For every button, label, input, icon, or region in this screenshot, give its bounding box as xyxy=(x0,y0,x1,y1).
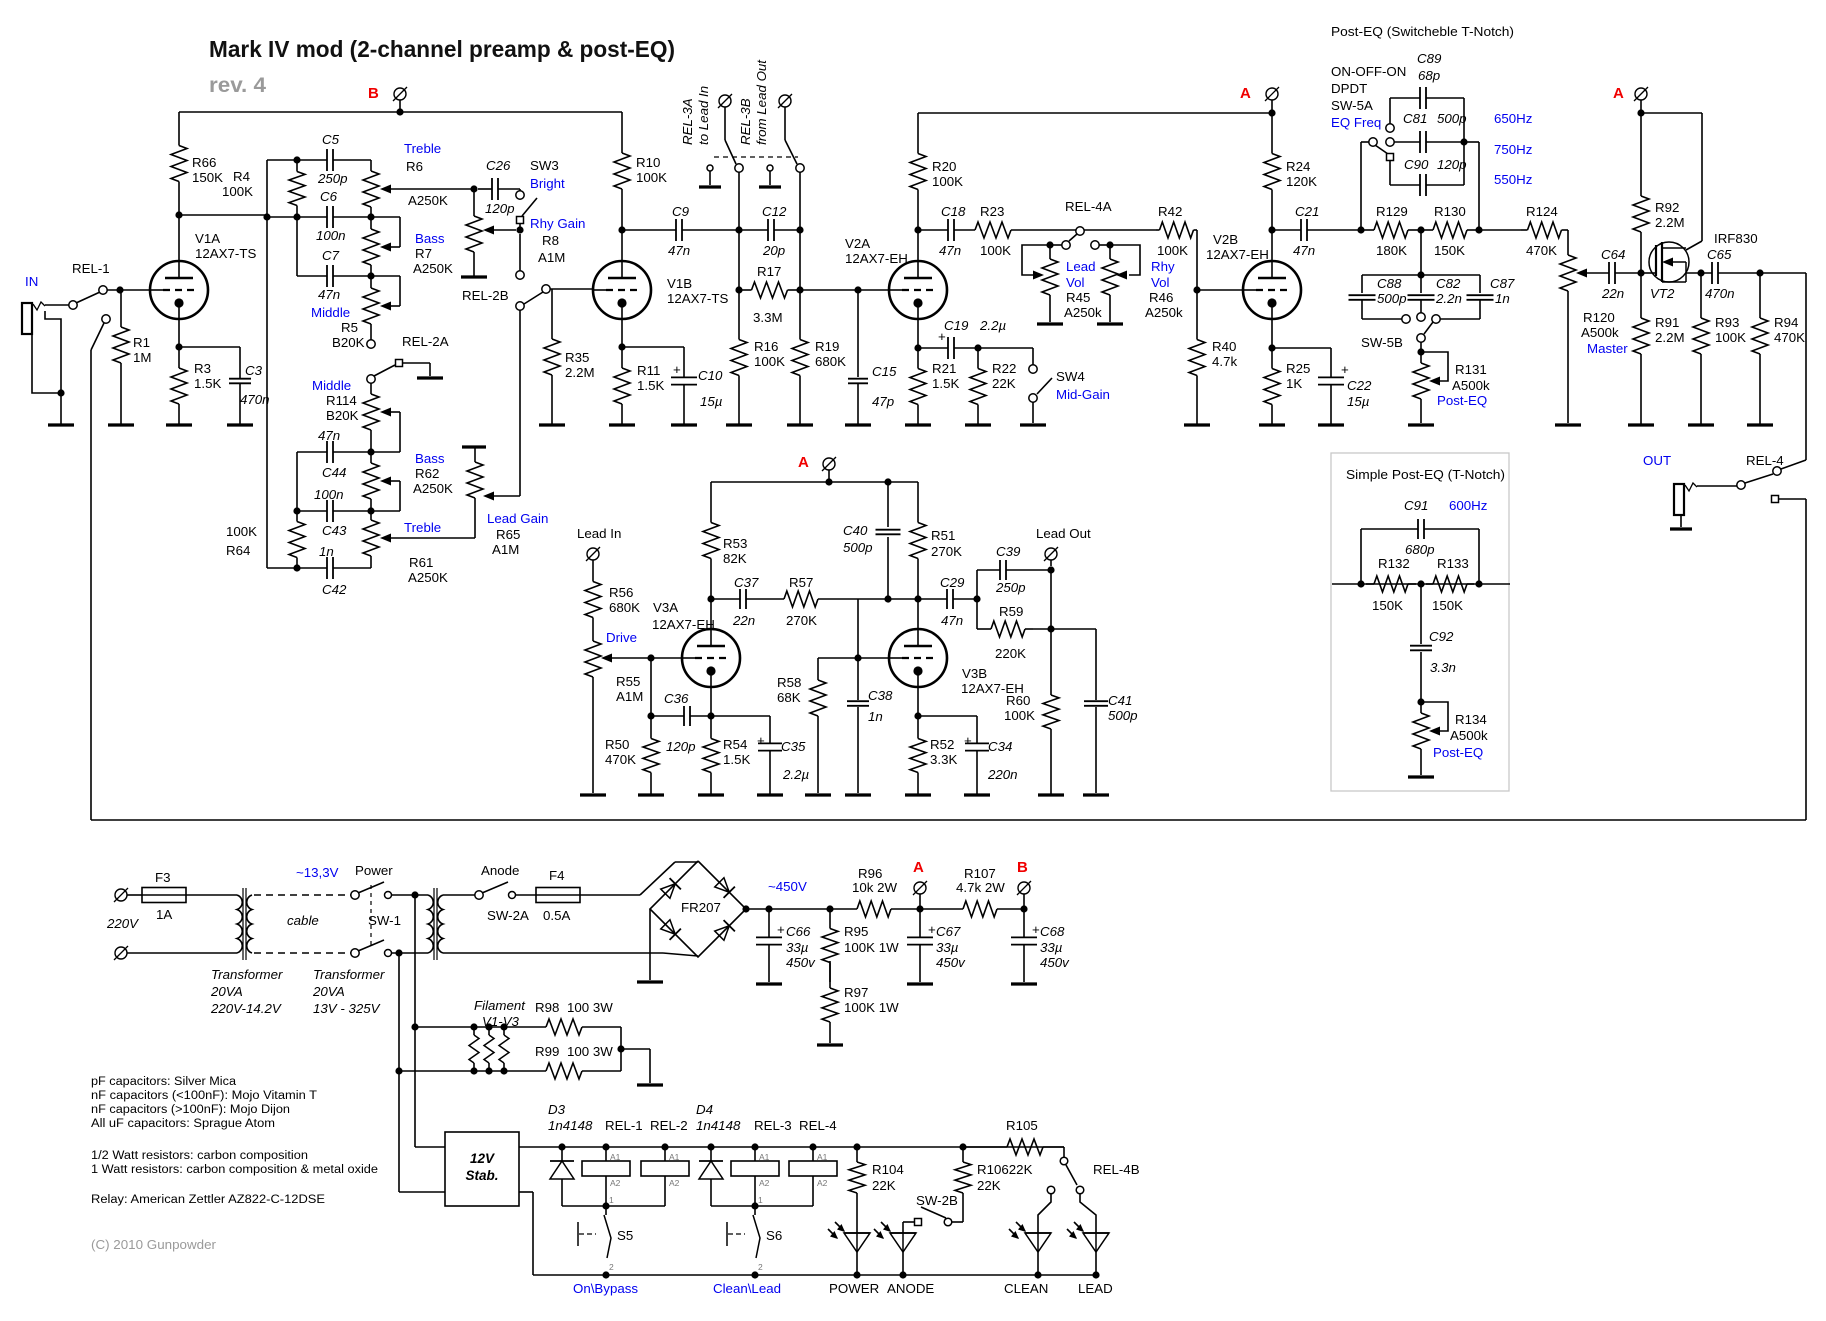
wire riser x297 lower xyxy=(296,452,298,511)
svg-text:A: A xyxy=(1613,85,1624,102)
ground C35 xyxy=(757,793,783,796)
svg-text:R98: R98 xyxy=(535,1000,559,1015)
relay REL-4A contact right xyxy=(1091,241,1099,249)
svg-text:100K: 100K xyxy=(1157,243,1188,258)
wire cable dashed bottom xyxy=(254,952,351,954)
svg-text:1n: 1n xyxy=(319,544,334,559)
label Lead In xyxy=(577,526,621,541)
wire R96 to R107 xyxy=(892,905,962,912)
wire V2A plate row xyxy=(918,229,975,231)
revision text xyxy=(209,74,266,97)
ground R40 xyxy=(1184,423,1210,426)
ground C3 xyxy=(227,423,253,426)
filament V2 xyxy=(484,1027,494,1071)
capacitor C87 xyxy=(1440,275,1515,319)
svg-text:+: + xyxy=(1341,362,1349,377)
svg-text:2.2n: 2.2n xyxy=(1435,291,1462,306)
switch SW3 blade xyxy=(522,198,537,216)
svg-text:R104: R104 xyxy=(872,1162,904,1177)
potentiometer R55 Drive xyxy=(585,625,651,793)
section title Simple Post-EQ xyxy=(1346,467,1505,482)
svg-text:C40: C40 xyxy=(843,523,868,538)
svg-text:Treble: Treble xyxy=(404,520,441,535)
svg-text:150K: 150K xyxy=(1432,598,1463,613)
svg-text:C64: C64 xyxy=(1601,247,1625,262)
relay REL-2B label xyxy=(462,288,509,303)
switch SW-1 link dashed xyxy=(370,885,372,947)
wire V3B grid drop xyxy=(857,599,859,658)
triode V1B xyxy=(593,261,728,319)
ground R11 xyxy=(609,423,635,426)
resistor R104 xyxy=(849,1147,904,1233)
svg-text:A: A xyxy=(1240,85,1251,102)
capacitor C39 xyxy=(995,544,1026,595)
svg-text:C41: C41 xyxy=(1108,693,1132,708)
wire R23 to REL-4A xyxy=(1011,229,1156,231)
resistor R11 xyxy=(614,347,664,425)
svg-text:Bass: Bass xyxy=(415,231,445,246)
ground R16 xyxy=(726,423,752,426)
triode V1A xyxy=(150,231,256,319)
svg-text:4.7k: 4.7k xyxy=(1212,354,1237,369)
switch SW4 labels xyxy=(1056,369,1110,402)
capacitor C38 xyxy=(847,658,893,793)
svg-text:A2: A2 xyxy=(669,1178,680,1188)
wire S6 bottom xyxy=(751,1262,763,1279)
wire Lead Vol top xyxy=(1022,241,1062,275)
svg-text:470K: 470K xyxy=(1774,330,1805,345)
svg-text:C6: C6 xyxy=(320,189,338,204)
svg-text:180K: 180K xyxy=(1376,243,1407,258)
wire x800 drop xyxy=(796,230,803,294)
svg-text:R19: R19 xyxy=(815,339,839,354)
wire jack OUT sleeve xyxy=(1680,515,1682,527)
relay REL-4 bypass contact square xyxy=(1772,496,1779,503)
svg-text:SW3: SW3 xyxy=(530,158,559,173)
svg-text:47n: 47n xyxy=(941,613,963,628)
wire row5 C43 xyxy=(293,507,400,514)
svg-text:2.2M: 2.2M xyxy=(1655,330,1685,345)
regulator 12V Stab box xyxy=(445,1132,519,1206)
svg-text:33µ: 33µ xyxy=(936,940,959,955)
svg-text:270K: 270K xyxy=(931,544,962,559)
node S6 top xyxy=(751,1195,763,1210)
ground C10 xyxy=(671,423,697,426)
svg-text:C9: C9 xyxy=(672,204,690,219)
wire 12V return xyxy=(519,1192,1097,1275)
bridge rectifier FR207 frame xyxy=(650,861,746,957)
relay coil REL-1 xyxy=(582,1147,630,1206)
triode V2A xyxy=(845,236,947,319)
capacitor C26 xyxy=(478,158,520,216)
notes capacitors xyxy=(91,1076,317,1130)
svg-text:C37: C37 xyxy=(734,575,759,590)
svg-text:Mid-Gain: Mid-Gain xyxy=(1056,387,1110,402)
svg-text:A2: A2 xyxy=(759,1178,770,1188)
svg-text:R56: R56 xyxy=(609,585,633,600)
wire SW-5B down xyxy=(1417,342,1424,356)
relay REL-4B label xyxy=(1093,1162,1140,1177)
svg-text:R92: R92 xyxy=(1655,200,1679,215)
label Drive xyxy=(606,630,637,645)
ground R58 xyxy=(805,793,831,796)
svg-text:680K: 680K xyxy=(815,354,846,369)
bridge diode D-BL xyxy=(660,919,681,940)
wire jack tip to REL-1 xyxy=(45,304,69,306)
svg-text:R25: R25 xyxy=(1286,361,1310,376)
wire notch caps top xyxy=(1362,230,1480,279)
power terminal A PSU xyxy=(913,881,927,909)
node B label xyxy=(368,85,379,102)
svg-text:A1M: A1M xyxy=(616,689,643,704)
ground R134 xyxy=(1408,775,1434,778)
power terminal A V3 xyxy=(822,457,836,482)
node A label right xyxy=(1613,85,1624,102)
wire V1A plate to tone stack xyxy=(175,211,267,218)
svg-text:12AX7-EH: 12AX7-EH xyxy=(1206,247,1269,262)
svg-text:22n: 22n xyxy=(1601,286,1624,301)
svg-text:A1M: A1M xyxy=(538,250,565,265)
node R129-R130 xyxy=(1417,226,1424,233)
svg-text:R132: R132 xyxy=(1378,556,1410,571)
potentiometer R65 Lead Gain xyxy=(391,447,548,557)
label Transformer T2 xyxy=(312,967,385,1016)
svg-text:C67: C67 xyxy=(936,924,961,939)
capacitor C15 xyxy=(848,290,897,425)
svg-text:R65: R65 xyxy=(496,527,520,542)
svg-text:SW-5B: SW-5B xyxy=(1361,335,1403,350)
ground filament xyxy=(637,1083,663,1086)
switch SW4 blade xyxy=(1037,378,1052,394)
svg-text:Vol: Vol xyxy=(1066,275,1085,290)
capacitor C9 xyxy=(668,204,690,258)
capacitor C66 xyxy=(756,909,816,982)
svg-text:A1: A1 xyxy=(817,1152,828,1162)
svg-text:0.5A: 0.5A xyxy=(543,908,570,923)
wire SW-5A to main xyxy=(1357,142,1369,234)
ground R45 xyxy=(1037,322,1063,325)
svg-text:A: A xyxy=(798,454,809,471)
resistor R59 xyxy=(977,604,1051,661)
resistor R133 xyxy=(1426,556,1474,613)
svg-text:500p: 500p xyxy=(1437,111,1467,126)
svg-text:Post-EQ: Post-EQ xyxy=(1437,393,1487,408)
svg-text:1.5K: 1.5K xyxy=(723,752,750,767)
capacitor C40 xyxy=(843,482,901,599)
wire REL-2A to ground xyxy=(403,363,430,376)
svg-text:C35: C35 xyxy=(781,739,806,754)
svg-text:C90: C90 xyxy=(1404,157,1429,172)
resistor R98 xyxy=(535,1000,621,1035)
switch SW-5A contact bottom square xyxy=(1387,154,1394,161)
svg-text:C38: C38 xyxy=(868,688,893,703)
ground R91 xyxy=(1628,423,1654,426)
svg-text:R3: R3 xyxy=(194,361,211,376)
svg-text:A1: A1 xyxy=(610,1152,621,1162)
wire filament top rail xyxy=(415,1023,546,1030)
svg-text:+: + xyxy=(1032,922,1040,937)
svg-text:22K: 22K xyxy=(992,376,1016,391)
svg-text:R23: R23 xyxy=(980,204,1004,219)
svg-text:Rhy Gain: Rhy Gain xyxy=(530,216,585,231)
svg-text:R45: R45 xyxy=(1066,290,1090,305)
resistor R60 xyxy=(1004,629,1059,795)
label Anode xyxy=(481,863,519,878)
wire V3B cathode xyxy=(914,687,977,720)
LED LEAD xyxy=(1067,1222,1113,1296)
wire V1A plate lead xyxy=(178,215,180,261)
svg-text:V3A: V3A xyxy=(653,600,678,615)
svg-text:100K: 100K xyxy=(980,243,1011,258)
svg-text:cable: cable xyxy=(287,913,319,928)
switch SW-5B label xyxy=(1361,335,1403,350)
capacitor C41 xyxy=(1084,629,1138,793)
svg-text:1n4148: 1n4148 xyxy=(696,1118,741,1133)
potentiometer R6 Treble xyxy=(363,141,448,217)
capacitor C19 xyxy=(938,318,1006,359)
resistor R40 xyxy=(1189,290,1237,425)
transformer T1 xyxy=(237,888,252,960)
relay REL-4A blade xyxy=(1069,234,1077,241)
svg-text:220n: 220n xyxy=(987,767,1018,782)
power terminal B PSU xyxy=(1017,881,1031,909)
transformer T2 xyxy=(428,888,443,960)
capacitor C90 xyxy=(1390,157,1467,196)
svg-text:V2A: V2A xyxy=(845,236,870,251)
wire tone stack left rail xyxy=(263,160,270,568)
ground bridge xyxy=(637,980,663,983)
svg-text:150K: 150K xyxy=(1434,243,1465,258)
wire cap bank left xyxy=(1389,98,1391,124)
svg-text:100K: 100K xyxy=(226,524,257,539)
ground C68 xyxy=(1011,982,1037,985)
svg-text:Lead Gain: Lead Gain xyxy=(487,511,548,526)
svg-text:R22: R22 xyxy=(992,361,1016,376)
svg-text:R59: R59 xyxy=(999,604,1023,619)
wire V2A cathode xyxy=(914,319,948,352)
relay coil REL-3 xyxy=(731,1147,779,1206)
switch REL-3B blade xyxy=(785,140,797,164)
capacitor C44 xyxy=(318,428,346,480)
svg-text:2.2µ: 2.2µ xyxy=(782,767,809,782)
svg-text:F4: F4 xyxy=(549,868,565,883)
wire V3B grid row xyxy=(818,654,889,661)
wire C91 left leg xyxy=(1360,529,1362,584)
resistor R124 xyxy=(1521,204,1568,258)
svg-text:1n4148: 1n4148 xyxy=(548,1118,593,1133)
power terminal A xyxy=(1265,87,1279,113)
svg-text:REL-3B: REL-3B xyxy=(738,98,753,145)
label 750Hz xyxy=(1494,142,1532,157)
svg-text:100K 1W: 100K 1W xyxy=(844,940,899,955)
wire 12V rail xyxy=(519,1143,1064,1150)
svg-text:R52: R52 xyxy=(930,737,954,752)
svg-text:22K: 22K xyxy=(977,1178,1001,1193)
svg-text:1 Watt resistors: carbon compo: 1 Watt resistors: carbon composition & m… xyxy=(91,1164,378,1176)
wire V2B cathode xyxy=(1268,319,1331,352)
svg-text:On\Bypass: On\Bypass xyxy=(573,1281,638,1296)
svg-text:33µ: 33µ xyxy=(1040,940,1063,955)
svg-text:1M: 1M xyxy=(133,350,151,365)
node IN label xyxy=(25,274,38,289)
label 650Hz xyxy=(1494,111,1532,126)
svg-text:Middle: Middle xyxy=(312,378,351,393)
resistor R58 xyxy=(777,658,826,793)
svg-text:C43: C43 xyxy=(322,523,347,538)
relay REL-4 blade xyxy=(1745,474,1773,483)
svg-text:+: + xyxy=(964,733,972,748)
svg-text:B20K: B20K xyxy=(326,408,359,423)
capacitor C22 xyxy=(1318,348,1372,425)
svg-text:100K: 100K xyxy=(222,184,253,199)
svg-text:R105: R105 xyxy=(1006,1118,1038,1133)
svg-text:470K: 470K xyxy=(605,752,636,767)
svg-text:REL-4: REL-4 xyxy=(799,1118,837,1133)
svg-text:82K: 82K xyxy=(723,551,747,566)
ground R97 xyxy=(817,1043,843,1046)
ground jack sleeve xyxy=(48,423,74,426)
svg-text:C66: C66 xyxy=(786,924,811,939)
svg-text:F3: F3 xyxy=(155,870,171,885)
svg-text:R95: R95 xyxy=(844,924,868,939)
svg-text:150K: 150K xyxy=(1372,598,1403,613)
svg-text:R64: R64 xyxy=(226,543,250,558)
svg-text:R20: R20 xyxy=(932,159,956,174)
wire SW3 node down xyxy=(519,234,521,271)
wire R130 to R124 xyxy=(1479,229,1521,231)
relay coil REL-2 xyxy=(606,1147,689,1206)
svg-text:V1B: V1B xyxy=(667,276,692,291)
svg-text:R66: R66 xyxy=(192,155,216,170)
ground R25 xyxy=(1259,423,1285,426)
svg-text:C5: C5 xyxy=(322,132,340,147)
capacitor C35 xyxy=(757,716,809,795)
relay REL-1 label xyxy=(72,261,110,276)
svg-text:Transformer: Transformer xyxy=(211,967,283,982)
resistor R20 xyxy=(910,113,963,230)
wire bypass right xyxy=(1779,499,1806,820)
svg-text:470n: 470n xyxy=(1705,286,1735,301)
resistor R17 xyxy=(739,264,800,325)
wire Rhy Vol top xyxy=(1099,241,1140,275)
svg-text:SW4: SW4 xyxy=(1056,369,1085,384)
svg-text:470K: 470K xyxy=(1526,243,1557,258)
label REL-1 coil xyxy=(605,1118,643,1133)
svg-text:C82: C82 xyxy=(1436,276,1461,291)
switch SW-5B contact right xyxy=(1432,315,1440,323)
svg-text:2: 2 xyxy=(758,1262,763,1272)
LED POWER xyxy=(828,1222,879,1296)
svg-text:20VA: 20VA xyxy=(312,984,345,999)
relay REL-3A NC stub xyxy=(707,165,713,185)
switch SW-5A pole xyxy=(1369,138,1377,146)
svg-text:REL-4: REL-4 xyxy=(1746,453,1784,468)
wire notch main row xyxy=(1332,580,1510,587)
svg-text:100 3W: 100 3W xyxy=(567,1044,613,1059)
wire R124 to Master xyxy=(1567,230,1569,237)
svg-text:R35: R35 xyxy=(565,350,589,365)
capacitor C81 xyxy=(1394,111,1467,153)
label D4 xyxy=(696,1102,741,1133)
capacitor C91 xyxy=(1361,498,1479,557)
label Transformer T1 xyxy=(210,967,283,1016)
ground R19 xyxy=(787,423,813,426)
svg-text:12AX7-EH: 12AX7-EH xyxy=(845,251,908,266)
svg-text:R97: R97 xyxy=(844,985,868,1000)
ground C15 xyxy=(845,423,871,426)
capacitor C89 xyxy=(1390,51,1464,109)
svg-text:C26: C26 xyxy=(486,158,511,173)
capacitor C6 xyxy=(316,189,346,243)
svg-text:1K: 1K xyxy=(1286,376,1302,391)
resistor R16 xyxy=(731,290,785,425)
svg-text:R53: R53 xyxy=(723,536,747,551)
svg-text:D3: D3 xyxy=(548,1102,566,1117)
capacitor C21 xyxy=(1293,204,1319,258)
node A label PSU xyxy=(913,859,924,876)
ground C22 xyxy=(1318,423,1344,426)
wire V1B plate node xyxy=(618,226,625,261)
svg-text:R96: R96 xyxy=(858,866,882,881)
notes relay xyxy=(91,1194,325,1206)
svg-text:120p: 120p xyxy=(666,739,696,754)
label cable xyxy=(287,913,319,928)
svg-text:A250k: A250k xyxy=(1064,305,1102,320)
svg-text:1.5K: 1.5K xyxy=(637,378,664,393)
svg-text:R16: R16 xyxy=(754,339,778,354)
svg-text:DPDT: DPDT xyxy=(1331,81,1367,96)
wire grid row V2A xyxy=(800,286,889,293)
wire REL-3 link dashed xyxy=(714,156,798,158)
triode V3B xyxy=(889,629,1024,696)
switch SW-5A contact mid xyxy=(1386,138,1394,146)
label REL-3 coil xyxy=(754,1118,792,1133)
svg-text:Post-EQ: Post-EQ xyxy=(1433,745,1483,760)
svg-text:150K: 150K xyxy=(192,170,223,185)
wire T2 to bridge bottom xyxy=(443,953,698,956)
label On Bypass xyxy=(573,1281,638,1296)
wire jack sleeve xyxy=(32,311,65,425)
svg-text:47n: 47n xyxy=(939,243,961,258)
wire F4 to bridge xyxy=(580,862,698,895)
svg-text:Clean\Lead: Clean\Lead xyxy=(713,1281,781,1296)
wire V3A plate row xyxy=(711,598,783,600)
wire 12V input bottom xyxy=(399,1191,445,1193)
svg-text:R5: R5 xyxy=(341,320,358,335)
resistor R66 xyxy=(171,112,223,215)
relay REL-4A pole xyxy=(1076,227,1084,235)
svg-text:100K: 100K xyxy=(636,170,667,185)
svg-text:A250K: A250K xyxy=(413,481,453,496)
node R134 top xyxy=(1417,698,1424,705)
svg-text:450v: 450v xyxy=(936,955,966,970)
wire to LEAD LED xyxy=(1080,1194,1096,1233)
wire C26 to SW3 xyxy=(519,189,521,191)
switch SW-5B contact left xyxy=(1402,315,1410,323)
resistor R91 xyxy=(1633,273,1685,425)
svg-text:100K: 100K xyxy=(932,174,963,189)
svg-text:B20K: B20K xyxy=(332,335,365,350)
node C65 out xyxy=(1756,269,1763,276)
wire V3A plate node xyxy=(707,595,714,629)
svg-text:550Hz: 550Hz xyxy=(1494,172,1532,187)
switch SW-1 top xyxy=(351,882,392,899)
svg-text:FR207: FR207 xyxy=(681,900,721,915)
svg-text:A250K: A250K xyxy=(408,193,448,208)
ground C67 xyxy=(907,982,933,985)
resistor R3 xyxy=(171,347,221,425)
svg-text:C7: C7 xyxy=(322,248,340,263)
